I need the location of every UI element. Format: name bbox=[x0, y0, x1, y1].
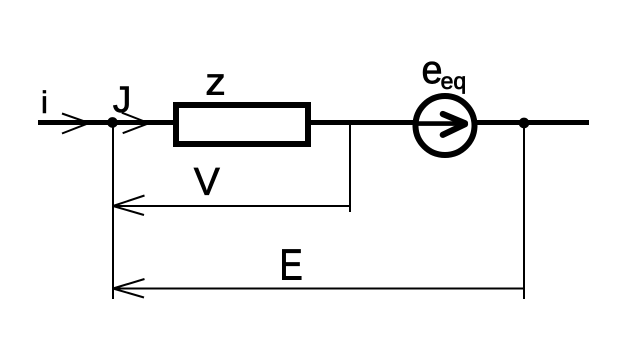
label e_eq bbox=[423, 62, 441, 84]
label E bbox=[282, 249, 301, 279]
resistor z (impedance box) bbox=[176, 105, 308, 144]
voltage source e_eq circle bbox=[416, 96, 475, 155]
label i bbox=[43, 90, 46, 112]
current arrow i bbox=[62, 114, 89, 134]
wire vertical from output node bbox=[523, 123, 525, 299]
voltage source arrow bbox=[418, 114, 465, 135]
label z bbox=[207, 75, 224, 95]
wire vertical from node J bbox=[112, 123, 114, 299]
node J junction dot bbox=[108, 118, 118, 128]
V arrowhead bbox=[113, 196, 145, 216]
node output junction dot bbox=[519, 118, 529, 128]
E arrowhead bbox=[113, 279, 145, 298]
voltage E dimension line bbox=[113, 288, 523, 290]
wire between resistor z and source bbox=[310, 120, 414, 125]
label V bbox=[194, 168, 220, 195]
wire right segment bbox=[476, 120, 589, 125]
wire main horizontal left segment bbox=[38, 120, 175, 125]
label J bbox=[113, 87, 128, 113]
wire vertical from resistor output bbox=[349, 123, 351, 212]
current arrow J bbox=[122, 113, 149, 134]
voltage V dimension line bbox=[113, 205, 350, 207]
